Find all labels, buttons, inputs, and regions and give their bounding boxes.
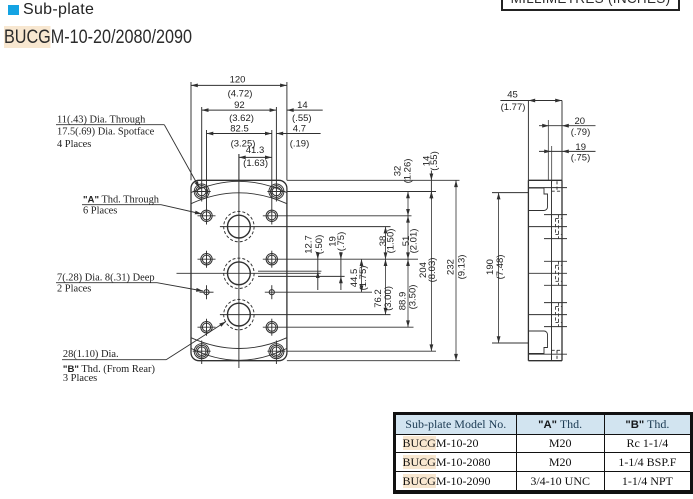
svg-text:14: 14 <box>297 100 308 111</box>
svg-text:45: 45 <box>507 90 518 101</box>
svg-text:17.5(.69) Dia. Spotface: 17.5(.69) Dia. Spotface <box>57 127 155 138</box>
svg-text:12.7: 12.7 <box>304 235 315 254</box>
svg-text:3 Places: 3 Places <box>63 373 97 384</box>
svg-text:28(1.10) Dia.: 28(1.10) Dia. <box>63 349 119 360</box>
svg-text:(1.26): (1.26) <box>403 159 414 184</box>
svg-text:(9.13): (9.13) <box>456 255 467 280</box>
svg-text:(.79): (.79) <box>571 127 591 138</box>
svg-text:2 Places: 2 Places <box>57 284 91 295</box>
svg-text:(3.62): (3.62) <box>229 113 254 124</box>
svg-text:(3.00): (3.00) <box>383 286 394 311</box>
svg-text:(.75): (.75) <box>571 152 591 163</box>
svg-text:(.55): (.55) <box>292 113 312 124</box>
svg-text:(4.72): (4.72) <box>228 89 253 100</box>
svg-text:(8.03): (8.03) <box>427 258 438 283</box>
svg-text:6 Places: 6 Places <box>83 206 117 217</box>
svg-text:(.19): (.19) <box>290 138 310 149</box>
svg-text:(1.63): (1.63) <box>243 158 268 169</box>
svg-text:(1.50): (1.50) <box>386 229 397 254</box>
svg-text:232: 232 <box>446 259 457 275</box>
svg-text:(.55): (.55) <box>429 151 440 171</box>
svg-text:11(.43) Dia. Through: 11(.43) Dia. Through <box>57 114 146 125</box>
svg-text:(1.77): (1.77) <box>501 102 526 113</box>
svg-text:(3.50): (3.50) <box>408 285 419 310</box>
svg-text:(7.48): (7.48) <box>495 255 506 280</box>
svg-text:92: 92 <box>234 100 245 111</box>
svg-text:(2.01): (2.01) <box>409 229 420 254</box>
svg-text:20: 20 <box>575 116 586 127</box>
svg-text:(.50): (.50) <box>314 235 325 255</box>
svg-text:4.7: 4.7 <box>293 123 306 134</box>
svg-text:120: 120 <box>230 74 246 85</box>
svg-text:4 Places: 4 Places <box>57 139 91 150</box>
svg-text:19: 19 <box>575 142 586 153</box>
svg-text:(1.75): (1.75) <box>358 266 369 291</box>
svg-text:"A" Thd. Through: "A" Thd. Through <box>83 195 160 206</box>
svg-text:41.3: 41.3 <box>246 145 265 156</box>
svg-text:(.75): (.75) <box>336 232 347 252</box>
svg-text:7(.28) Dia. 8(.31) Deep: 7(.28) Dia. 8(.31) Deep <box>57 273 155 284</box>
svg-text:82.5: 82.5 <box>230 123 249 134</box>
